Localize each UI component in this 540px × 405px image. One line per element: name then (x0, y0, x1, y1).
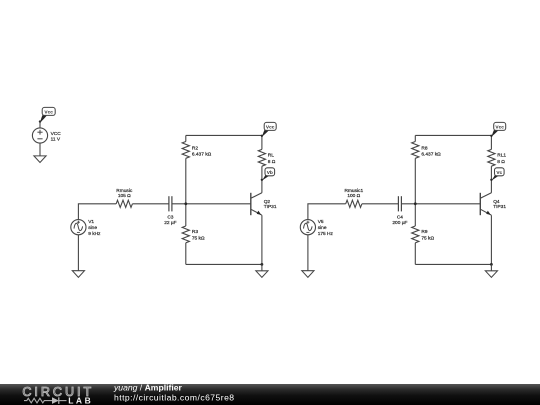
ground (emitter side) (485, 271, 497, 278)
svg-text:RL: RL (268, 153, 274, 159)
resistor R9 75 k&#937; (412, 226, 419, 243)
transistor Q4 TIP31 (NPN) (480, 193, 491, 215)
svg-text:Q2: Q2 (264, 199, 271, 205)
wire C3 to base of Q2 (172, 203, 251, 205)
resistor Rmusic1 100 &#937; (series) (346, 200, 362, 207)
wire flag to VCC source (39, 121, 41, 128)
ground (source side) (302, 271, 314, 278)
wire emitter down (261, 215, 263, 264)
junction emitter/ground (490, 263, 493, 266)
voltage source V5 (sine) (300, 220, 315, 235)
wire Rmusic to C3 (132, 203, 169, 205)
svg-text:V1: V1 (88, 219, 94, 225)
node flag Vcc (source) (39, 107, 55, 122)
svg-text:75 kΩ: 75 kΩ (192, 235, 205, 241)
svg-text:R9: R9 (421, 229, 427, 235)
svg-text:LAB: LAB (68, 396, 93, 405)
junction emitter/ground (261, 263, 264, 266)
svg-text:8 Ω: 8 Ω (268, 159, 276, 165)
logo diode symbol (52, 397, 59, 404)
ground (VCC source) (34, 156, 46, 163)
svg-text:75 kΩ: 75 kΩ (421, 235, 434, 241)
wire collector to RL1 (490, 166, 492, 193)
wire top rail node (186, 134, 262, 136)
wire C4 to base of Q4 (401, 203, 480, 205)
wire ground stem (261, 264, 263, 270)
wire RL1 to top rail (490, 135, 492, 149)
voltage source V1 (sine) (71, 220, 86, 235)
svg-text:Rmusic1: Rmusic1 (344, 188, 363, 194)
svg-text:TIP31: TIP31 (493, 204, 506, 210)
svg-text:100 Ω: 100 Ω (347, 193, 360, 199)
wire R8 upper lead (414, 135, 416, 141)
node flag Vcc (261, 122, 277, 137)
svg-text:sine: sine (318, 225, 327, 231)
resistor R8 6.437 k&#937; (412, 142, 419, 159)
wire RL to top rail (261, 135, 263, 149)
ground (emitter side) (256, 271, 268, 278)
transistor Q2 TIP31 (NPN) (251, 193, 262, 215)
resistor RL1 8 &#937; (488, 149, 495, 166)
wire left rail R8 to R9 (414, 158, 416, 226)
wire R3 lower lead (185, 243, 187, 265)
wire bottom rail (415, 263, 491, 265)
svg-text:C4: C4 (397, 214, 403, 220)
svg-text:Vb: Vb (267, 170, 273, 176)
svg-text:R8: R8 (421, 145, 427, 151)
resistor RL 8 &#937; (258, 149, 265, 166)
junction node base/divider (414, 202, 417, 205)
svg-text:Q4: Q4 (493, 199, 500, 205)
svg-text:sine: sine (88, 225, 97, 231)
wire source to Rmusic1 (308, 204, 346, 220)
node flag Vcc (490, 122, 506, 137)
svg-text:C3: C3 (167, 214, 173, 220)
svg-text:175 Hz: 175 Hz (318, 231, 334, 237)
svg-text:Vcc: Vcc (44, 110, 53, 116)
capacitor C4 200 &#181;F (398, 196, 401, 211)
resistor Rmusic 105 &#937; (series) (116, 200, 132, 207)
svg-text:TIP31: TIP31 (264, 204, 277, 210)
wire Rmusic1 to C4 (362, 203, 399, 205)
svg-text:11 V: 11 V (51, 137, 61, 143)
logo resistor squiggle (24, 398, 52, 403)
svg-text:Rmusic: Rmusic (116, 188, 133, 194)
svg-text:105 Ω: 105 Ω (118, 193, 131, 199)
svg-text:6.437 kΩ: 6.437 kΩ (192, 152, 212, 158)
capacitor C3 22 &#181;F (169, 196, 172, 211)
svg-text:VCC: VCC (51, 131, 62, 137)
wire R2 upper lead (185, 135, 187, 141)
node flag Vc (490, 168, 504, 181)
svg-text:R2: R2 (192, 145, 198, 151)
node flag Vb (261, 168, 275, 181)
svg-text:6.437 kΩ: 6.437 kΩ (421, 152, 441, 158)
wire ground stem (490, 264, 492, 270)
svg-text:Vc: Vc (496, 170, 502, 176)
svg-text:yuang / Amplifier: yuang / Amplifier (113, 382, 182, 392)
wire left rail R2 to R3 (185, 158, 187, 226)
wire source to Rmusic (78, 204, 116, 220)
resistor R2 6.437 k&#937; (182, 142, 189, 159)
svg-text:22 µF: 22 µF (164, 220, 176, 226)
svg-text:9 kHz: 9 kHz (88, 231, 101, 237)
junction node base/divider (184, 202, 187, 205)
wire top rail node (415, 134, 491, 136)
svg-text:Vcc: Vcc (495, 125, 504, 131)
svg-text:Vcc: Vcc (266, 125, 275, 131)
wire bottom rail (186, 263, 262, 265)
resistor R3 75 k&#937; (182, 226, 189, 243)
svg-text:RL1: RL1 (497, 153, 506, 159)
svg-text:R3: R3 (192, 229, 198, 235)
wire emitter down (490, 215, 492, 264)
svg-text:200 µF: 200 µF (392, 220, 407, 226)
svg-text:V5: V5 (318, 219, 324, 225)
wire R9 lower lead (414, 243, 416, 265)
wire source to ground (77, 235, 79, 271)
footer bar (0, 384, 540, 405)
wire VCC source to ground (39, 143, 41, 156)
svg-text:http://circuitlab.com/c675re8: http://circuitlab.com/c675re8 (114, 393, 235, 403)
wire source to ground (307, 235, 309, 271)
voltage source VCC 11 V (32, 128, 47, 143)
svg-text:8 Ω: 8 Ω (497, 159, 505, 165)
ground (source side) (72, 271, 84, 278)
wire collector to RL (261, 166, 263, 193)
